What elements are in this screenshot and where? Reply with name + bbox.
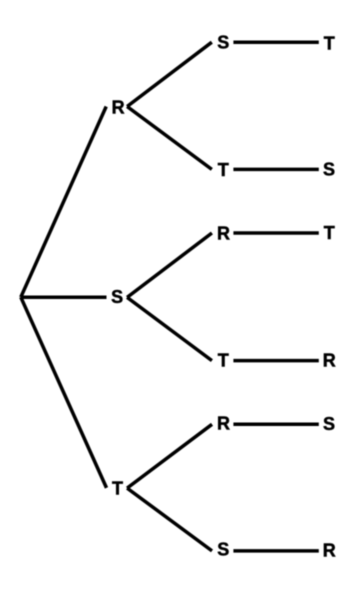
svg-text:S: S <box>323 414 335 434</box>
svg-text:R: R <box>217 224 230 244</box>
svg-text:T: T <box>218 351 229 371</box>
svg-text:S: S <box>323 160 335 180</box>
svg-text:T: T <box>324 33 335 53</box>
svg-text:R: R <box>217 414 230 434</box>
svg-text:S: S <box>217 33 229 53</box>
svg-text:T: T <box>324 223 335 243</box>
svg-text:S: S <box>217 539 229 559</box>
svg-text:R: R <box>323 350 336 370</box>
svg-text:R: R <box>112 97 125 117</box>
svg-text:T: T <box>112 478 123 498</box>
svg-text:R: R <box>323 540 336 560</box>
svg-text:S: S <box>111 287 123 307</box>
svg-text:T: T <box>218 160 229 180</box>
